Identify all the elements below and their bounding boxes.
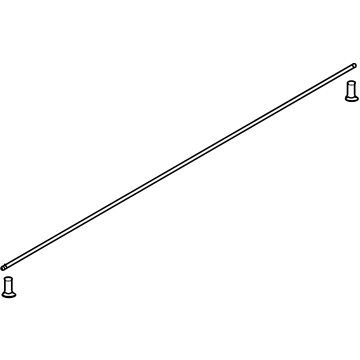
left corner flare <box>346 94 348 97</box>
rim front sliver <box>6 279 11 281</box>
hole shadow arc <box>348 97 354 98</box>
body fill <box>348 84 353 95</box>
body right side <box>354 84 356 95</box>
right corner flare <box>12 290 14 293</box>
rim front sliver <box>349 83 354 85</box>
grommet (top right) <box>345 81 359 102</box>
flange base <box>345 95 359 102</box>
top rim <box>348 81 356 85</box>
left corner flare <box>3 290 5 293</box>
bore shadow arc <box>349 84 353 87</box>
junction white opening <box>5 289 12 294</box>
junction white opening <box>347 93 354 98</box>
body left side <box>347 84 349 95</box>
rod tube core (white) <box>4 67 352 268</box>
body left side <box>4 280 6 291</box>
flange top face <box>347 98 358 101</box>
grommet (bottom left) <box>1 277 16 298</box>
bore shadow arc <box>6 280 10 283</box>
rod left sleeve tick <box>5 264 7 266</box>
flange base <box>1 292 16 299</box>
hole shadow arc <box>6 293 12 294</box>
rod left tip end ring <box>1 266 5 271</box>
flange top face <box>3 293 14 296</box>
top rim <box>4 277 12 281</box>
rod right tip opening ring <box>352 63 357 68</box>
body right side <box>11 280 13 291</box>
right corner flare <box>355 94 357 97</box>
body fill <box>6 280 11 292</box>
rod tube outer (black) <box>3 66 354 269</box>
